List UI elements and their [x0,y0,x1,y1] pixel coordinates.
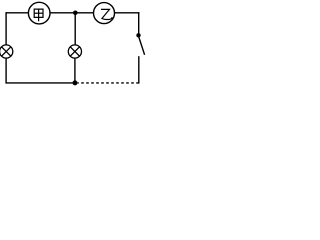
lamp L2 (middle, circle-X) [68,45,81,58]
switch S1 (open) blade [139,37,145,55]
node A (junction dot, top) [73,11,78,16]
wire: top middle segment [50,12,94,14]
switch S1 (open) pivot dot [136,33,140,37]
wire: bottom-right dashed segment [78,82,139,84]
wire: left side lower [5,58,7,84]
wire: middle branch lower (lamp L2 to node B) [74,58,76,83]
lamp L1 (left, circle-X) [0,45,13,58]
node B (junction dot, bottom) [73,80,78,85]
wire: top-right segment [114,12,139,14]
wire: right side lower (from switch to bottom-right corner) [138,56,140,83]
wire: middle branch upper (node A to lamp L2) [74,13,76,45]
instrument 乙 (bell B, U2) [94,3,115,24]
instrument 甲 (bell A, U1) [28,2,50,24]
wire: top-left segment [6,12,29,14]
wire: bottom-left solid segment [6,82,75,84]
wire: right side upper (to switch) [138,12,140,34]
wire: left side upper [5,12,7,45]
